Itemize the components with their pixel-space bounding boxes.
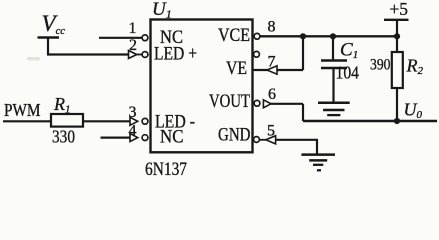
wire R1 to pin3 — [83, 120, 130, 122]
svg-text:8: 8 — [268, 19, 276, 36]
wire C1 bottom — [332, 68, 334, 103]
wire Vcc to pin2 — [47, 53, 129, 55]
svg-text:+5: +5 — [390, 0, 409, 19]
wire pin5 short — [260, 139, 267, 141]
svg-text:104: 104 — [336, 63, 360, 83]
wire VE vertical to rail — [302, 36, 304, 70]
svg-text:LED +: LED + — [154, 44, 197, 65]
svg-text:1: 1 — [129, 20, 137, 37]
pin 4 arrow triangle — [130, 134, 138, 142]
pin 8 bubble — [254, 33, 260, 39]
capacitor C1 plates — [321, 59, 347, 61]
svg-text:VE: VE — [226, 58, 247, 79]
pin 3 arrow triangle — [130, 117, 138, 125]
node junction C1 rail — [330, 33, 336, 39]
pin 2 arrow triangle — [129, 51, 137, 59]
optocoupler U1 (6N137) body — [151, 20, 253, 153]
wire pin1 stub — [99, 37, 142, 39]
svg-text:NC: NC — [160, 127, 184, 148]
pin 2 bubble — [142, 52, 148, 58]
wire VOUT horizontal — [271, 103, 303, 105]
resistor R1 — [51, 114, 83, 127]
ground symbol (pin5) — [301, 155, 335, 171]
pin 6 bubble — [254, 100, 260, 106]
pin 1 bubble — [142, 35, 148, 41]
wire top rail pin8 to +5 — [260, 35, 398, 37]
wire Vcc down — [47, 38, 49, 55]
wire pin2 short — [137, 54, 142, 56]
pin 5 arrow triangle — [266, 136, 276, 144]
svg-text:6N137: 6N137 — [145, 159, 187, 180]
wire VOUT vertical — [302, 104, 304, 121]
svg-text:PWM: PWM — [4, 100, 41, 120]
node junction R2 bottom — [394, 118, 400, 124]
scan artifact: faint smudge — [27, 57, 40, 61]
wire GND horizontal — [276, 139, 318, 141]
wire VE horizontal — [253, 69, 304, 71]
node junction VE rail — [300, 33, 306, 39]
ground symbol (C1) — [318, 103, 350, 115]
resistor R2 — [392, 52, 403, 88]
wire R2 bottom — [396, 88, 398, 121]
pin 5 bubble — [254, 137, 260, 143]
wire PWM to R1 — [3, 120, 51, 122]
node +5 terminal bar — [384, 19, 409, 21]
svg-text:GND: GND — [218, 125, 251, 146]
svg-text:VOUT: VOUT — [209, 91, 250, 112]
svg-text:390: 390 — [370, 57, 391, 74]
svg-text:330: 330 — [52, 127, 75, 147]
pin 7 arrow triangle — [267, 66, 277, 74]
wire rail to R2 — [396, 36, 398, 52]
pin 7 bubble — [254, 51, 260, 57]
wire bottom rail to U0 — [303, 120, 437, 122]
wire pin4 stub — [101, 137, 131, 139]
wire GND vertical — [316, 140, 318, 155]
pin 4 bubble — [142, 135, 148, 141]
capacitor C1 wire top — [332, 36, 334, 60]
pin 3 bubble — [142, 118, 148, 124]
pin 6 arrow triangle — [263, 100, 271, 108]
svg-text:VCE: VCE — [218, 25, 250, 46]
node junction +5 rail — [394, 33, 400, 39]
svg-text:6: 6 — [268, 86, 276, 103]
wire +5 down to rail — [396, 20, 398, 37]
node Vcc terminal bar — [38, 36, 60, 38]
